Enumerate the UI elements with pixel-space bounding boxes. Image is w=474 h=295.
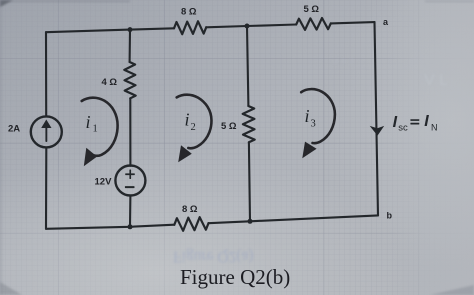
mesh arrowhead i1 [84,148,97,167]
label Isc = IN [393,113,438,134]
mesh arrow i1 [82,98,118,156]
wire: bottom rail [46,225,174,229]
mesh arrow i2 [177,95,212,149]
voltage source V1 12V circle [115,166,145,196]
ghost show-through text above caption [173,56,448,265]
svg-text:Figure Q2(b): Figure Q2(b) [180,265,290,289]
wire: branch1 mid [129,98,131,166]
minus sign of 12V source [125,186,135,188]
wire: branch1 bottom [129,196,131,227]
resistor R-5ohm-mid [243,106,255,142]
wire: right branch vertical [375,22,379,215]
dark top-left photo corner [0,0,13,7]
noise overlay [0,0,1,1]
wire: left branch vertical [45,32,47,116]
node dot bottom branch1 [128,224,133,229]
node dot top branch1 [128,27,133,32]
resistor R-8ohm-top [174,21,206,34]
resistor R-4ohm [124,62,135,98]
current source I1 2A circle [31,116,62,147]
wire: branch1 top [129,30,131,62]
wire: top rail left segment [46,28,174,32]
current source arrow [45,126,47,142]
resistor R-5ohm-top [296,18,331,30]
resistor R-8ohm-bottom [174,217,208,231]
node dot top branch2 [245,24,250,29]
wire: bottom rail right [209,215,379,223]
wire: top rail right segment to corner a [331,22,375,23]
wire: branch2 bottom [249,142,250,221]
mesh current arcs [82,89,335,156]
Isc arrow head on right wire [370,126,385,136]
wire: left branch vertical lower [45,147,47,228]
mesh arrow i3 [301,89,335,143]
wire: top rail mid segment [206,25,296,28]
mesh arrowhead i3 [302,142,316,159]
wire: branch2 top [247,26,248,106]
node dot bottom branch2 [248,219,253,224]
mesh arrowhead i2 [178,145,192,162]
plus sign of 12V source [125,173,135,175]
